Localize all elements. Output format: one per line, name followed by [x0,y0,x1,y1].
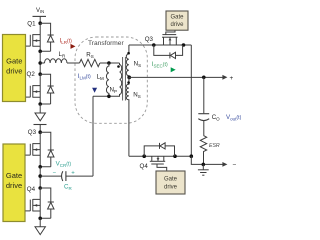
wire SR rail (right vertical) [190,45,192,156]
wire to Q3 drain [39,125,41,133]
svg-text:Q3: Q3 [145,36,154,43]
wire VIN to Q1 drain [39,16,41,23]
transistor Q3 SR (NMOS horizontal) [162,30,178,45]
node VIN terminal bar [33,15,47,17]
svg-text:CO: CO [212,114,220,122]
svg-text:Gate: Gate [164,177,178,183]
capacitor CR [62,171,66,181]
diode D6 (SR Q4 body diode) [144,143,174,156]
wire Q2 source to ground [39,104,41,113]
diode D3 (Q3 body diode) [40,132,54,167]
svg-text:Q2: Q2 [27,71,36,78]
node Q1 drain junction [38,21,42,25]
winding NS top (secondary) [126,45,129,77]
current ILM(t) arrow [92,68,97,93]
svg-text:ILM(t): ILM(t) [78,73,91,81]
inductor LM (magnetizing) [106,63,108,96]
diode D5 (SR Q3 body diode) [154,45,183,59]
wire output cap branch upper [203,77,205,113]
svg-text:LR: LR [59,51,66,59]
wire bridge leg A midsection [39,51,41,74]
node NS bottom phase dot [127,81,130,84]
node primary phase dot [117,65,120,68]
svg-text:Q1: Q1 [27,21,36,28]
diode D1 (Q1 body diode) [40,23,54,51]
node Q2 drain junction [38,72,42,76]
transformer core [123,57,126,101]
svg-text:CR: CR [64,184,72,192]
node output capacitor junction [202,76,206,80]
svg-text:ISEC(t): ISEC(t) [152,61,168,69]
diode D2 (Q2 body diode) [40,74,54,104]
node SR Q3 right junction [182,43,186,47]
resistor ESR [200,136,206,165]
svg-text:+: + [71,170,75,176]
wire RS to primary node [100,62,120,64]
wire cap to ESR [203,121,205,136]
node NS top phase dot [127,52,130,55]
svg-text:Gate: Gate [170,15,184,21]
svg-text:VCR(t): VCR(t) [56,160,72,168]
ground (output) [198,164,209,175]
node Q1 source junction [38,50,42,54]
gate drive box (bottom-right, tan) [156,171,185,194]
svg-text:Vout(t): Vout(t) [226,114,242,122]
transistor Q2 (NMOS) [26,74,40,104]
svg-text:Q4: Q4 [140,163,149,170]
node Q2 source junction [38,102,42,106]
svg-text:Q3: Q3 [28,129,37,136]
node primary top junction [107,61,111,65]
capacitor CO [198,114,209,121]
node SR rail bottom junction [190,154,194,158]
wire LR to RS [67,62,80,64]
svg-text:Gate: Gate [6,57,22,66]
svg-text:NS: NS [133,92,140,100]
inductor LR [45,59,67,63]
transistor Q4 (NMOS) [25,188,40,218]
node Q4 drain junction [38,186,42,190]
node bridge A output junction [38,61,42,65]
current ISEC(t) arrow [152,67,176,72]
svg-text:RS: RS [86,52,93,60]
diode D4 (Q4 body diode) [40,188,54,218]
svg-text:NS: NS [134,61,141,69]
svg-text:ILR(t): ILR(t) [60,38,73,46]
wire center tap to output plus [129,76,223,78]
wire NS top to SR Q3 [129,44,191,46]
transistor Q1 (NMOS) [26,23,40,51]
node SR Q4 left junction [142,154,146,158]
output minus arrow [222,162,227,167]
node Q3 source junction [38,165,42,169]
svg-text:drive: drive [6,181,22,190]
node ground junction (output) [202,163,206,167]
node SR Q4 right junction [173,154,177,158]
node VIN terminal bar (second leg) [34,124,47,126]
transistor Q3 (NMOS) [25,132,40,167]
svg-text:drive: drive [6,67,22,76]
node bridge B output junction (to CR) [38,174,42,178]
transformer dashed boundary [75,37,147,123]
ground (top-left leg) [35,113,45,121]
node Q4 source junction [38,217,42,221]
ground (bottom-left leg) [35,227,45,235]
svg-text:Gate: Gate [6,171,22,180]
svg-text:VIN: VIN [36,8,44,14]
node primary bottom junction [107,95,111,99]
wire bridge A to LR [40,62,44,64]
node Q3 drain junction [38,130,42,134]
svg-text:drive: drive [164,185,178,191]
wire Q4 source to ground [39,218,41,227]
winding NP (primary) [93,63,122,96]
node SR Q3 left junction [152,43,156,47]
gate drive box (top-left, yellow) [3,35,26,102]
svg-text:NP: NP [110,87,117,95]
wire NS bottom to SR Q4 [129,155,191,157]
transistor Q4 SR (NMOS horizontal) [150,156,167,171]
winding NS bottom (secondary) [126,77,129,156]
svg-text:Q4: Q4 [27,186,36,193]
capacitor CR wire (bridge B to resonant cap) [40,175,61,177]
node center tap junction [127,76,131,80]
wire primary return (down to CR line) [92,96,94,176]
svg-text:+: + [230,75,234,82]
gate drive box (top-right, tan) [166,11,188,30]
gate drive box (bottom-left, yellow) [3,144,25,222]
svg-text:−: − [233,162,237,169]
output plus arrow [222,75,227,80]
wire bridge leg B midsection [39,167,41,188]
svg-text:ESR: ESR [209,143,220,149]
svg-text:−: − [53,171,57,177]
wire step down to output minus rail [191,156,222,164]
wire CR to return [66,175,93,177]
svg-text:LM: LM [97,74,104,82]
svg-text:Transformer: Transformer [88,40,124,47]
svg-text:drive: drive [170,22,184,28]
resistor RS [80,59,100,66]
